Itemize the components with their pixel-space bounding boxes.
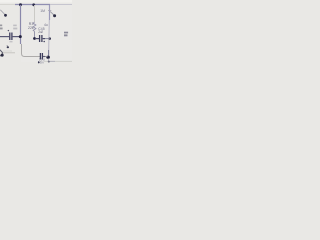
label faint left of rail line1 bbox=[13, 25, 17, 27]
wire middle to C5 bbox=[35, 38, 39, 40]
capacitor C1 plates bbox=[10, 33, 12, 41]
svg-text:1M: 1M bbox=[40, 9, 45, 13]
junction dot node A (top rail / left rail) bbox=[19, 3, 22, 6]
wire R3 bottom lead bbox=[34, 31, 36, 38]
junction dot node D (middle wire / right rail) bbox=[48, 37, 51, 40]
label R6 bbox=[64, 32, 68, 34]
wire top rail right segment bbox=[50, 4, 72, 6]
glyph bottom-left chevron bbox=[0, 50, 3, 56]
wire bottom rail darker dash bbox=[48, 60, 55, 62]
wire R3 top feed bbox=[34, 5, 36, 22]
capacitor C6 plates (bottom) bbox=[40, 53, 42, 60]
label cropped text left edge line1 bbox=[0, 25, 2, 27]
blob bottom-left bbox=[1, 54, 4, 57]
svg-text:2u2: 2u2 bbox=[38, 30, 43, 34]
polarity mark below C5 bbox=[43, 41, 45, 43]
tick across right rail bbox=[48, 9, 51, 11]
junction dot node B (top rail / R3) bbox=[32, 3, 35, 6]
wire left vertical lower gray with rounded corner to bottom wire bbox=[22, 44, 41, 57]
svg-text:22k: 22k bbox=[28, 26, 34, 30]
wire faint from bottom-left glyph bbox=[3, 52, 15, 54]
junction dot node E (bottom wire / right rail) bbox=[46, 56, 50, 59]
label faint under C1 bbox=[10, 41, 13, 43]
resistor R3 zigzag bbox=[33, 22, 36, 31]
arrow glyph right (pot wiper) bbox=[50, 12, 54, 16]
blob below glyph 2 bbox=[7, 46, 9, 48]
arrow head blob top-left bbox=[4, 14, 7, 17]
junction dot node G (input wire / left rail) bbox=[19, 35, 22, 38]
wire darker tick right of C5 bbox=[43, 38, 45, 40]
wire C5 to right rail bbox=[43, 38, 50, 40]
label 1k bbox=[64, 34, 68, 36]
wire left vertical rail bbox=[20, 5, 22, 44]
wire dark tick right of C6 bbox=[43, 56, 45, 58]
junction dot node C (R3 / C5 wire) bbox=[33, 37, 36, 40]
label faint left of rail line2 bbox=[13, 28, 17, 30]
wire right vertical rail upper bbox=[49, 5, 51, 20]
wire input left bbox=[0, 36, 9, 38]
arrow glyph top-left bbox=[0, 10, 4, 14]
wire C1 to left rail bbox=[13, 36, 20, 38]
label cropped text left edge line2 bbox=[0, 28, 3, 30]
background bbox=[0, 0, 72, 72]
capacitor C5 plates bbox=[40, 35, 42, 42]
arrow head blob right bbox=[53, 14, 56, 17]
wire faint second line from bottom-left glyph bbox=[3, 50, 12, 52]
wire right rail dark segment above junction bbox=[48, 50, 50, 56]
junction dot node F (bottom rail) bbox=[48, 61, 50, 63]
wire right rail stub to bottom rail bbox=[47, 59, 49, 62]
wire C6 to junction bbox=[43, 56, 48, 58]
polarity dot above C1 bbox=[8, 30, 9, 31]
wire bottom ground rail bbox=[44, 60, 72, 62]
wire right vertical rail lower bbox=[48, 20, 51, 50]
wire V+ top rail main bbox=[15, 4, 50, 6]
dark mark at start of 16v label bbox=[38, 61, 40, 63]
wire top rail faint left segment bbox=[0, 4, 15, 6]
